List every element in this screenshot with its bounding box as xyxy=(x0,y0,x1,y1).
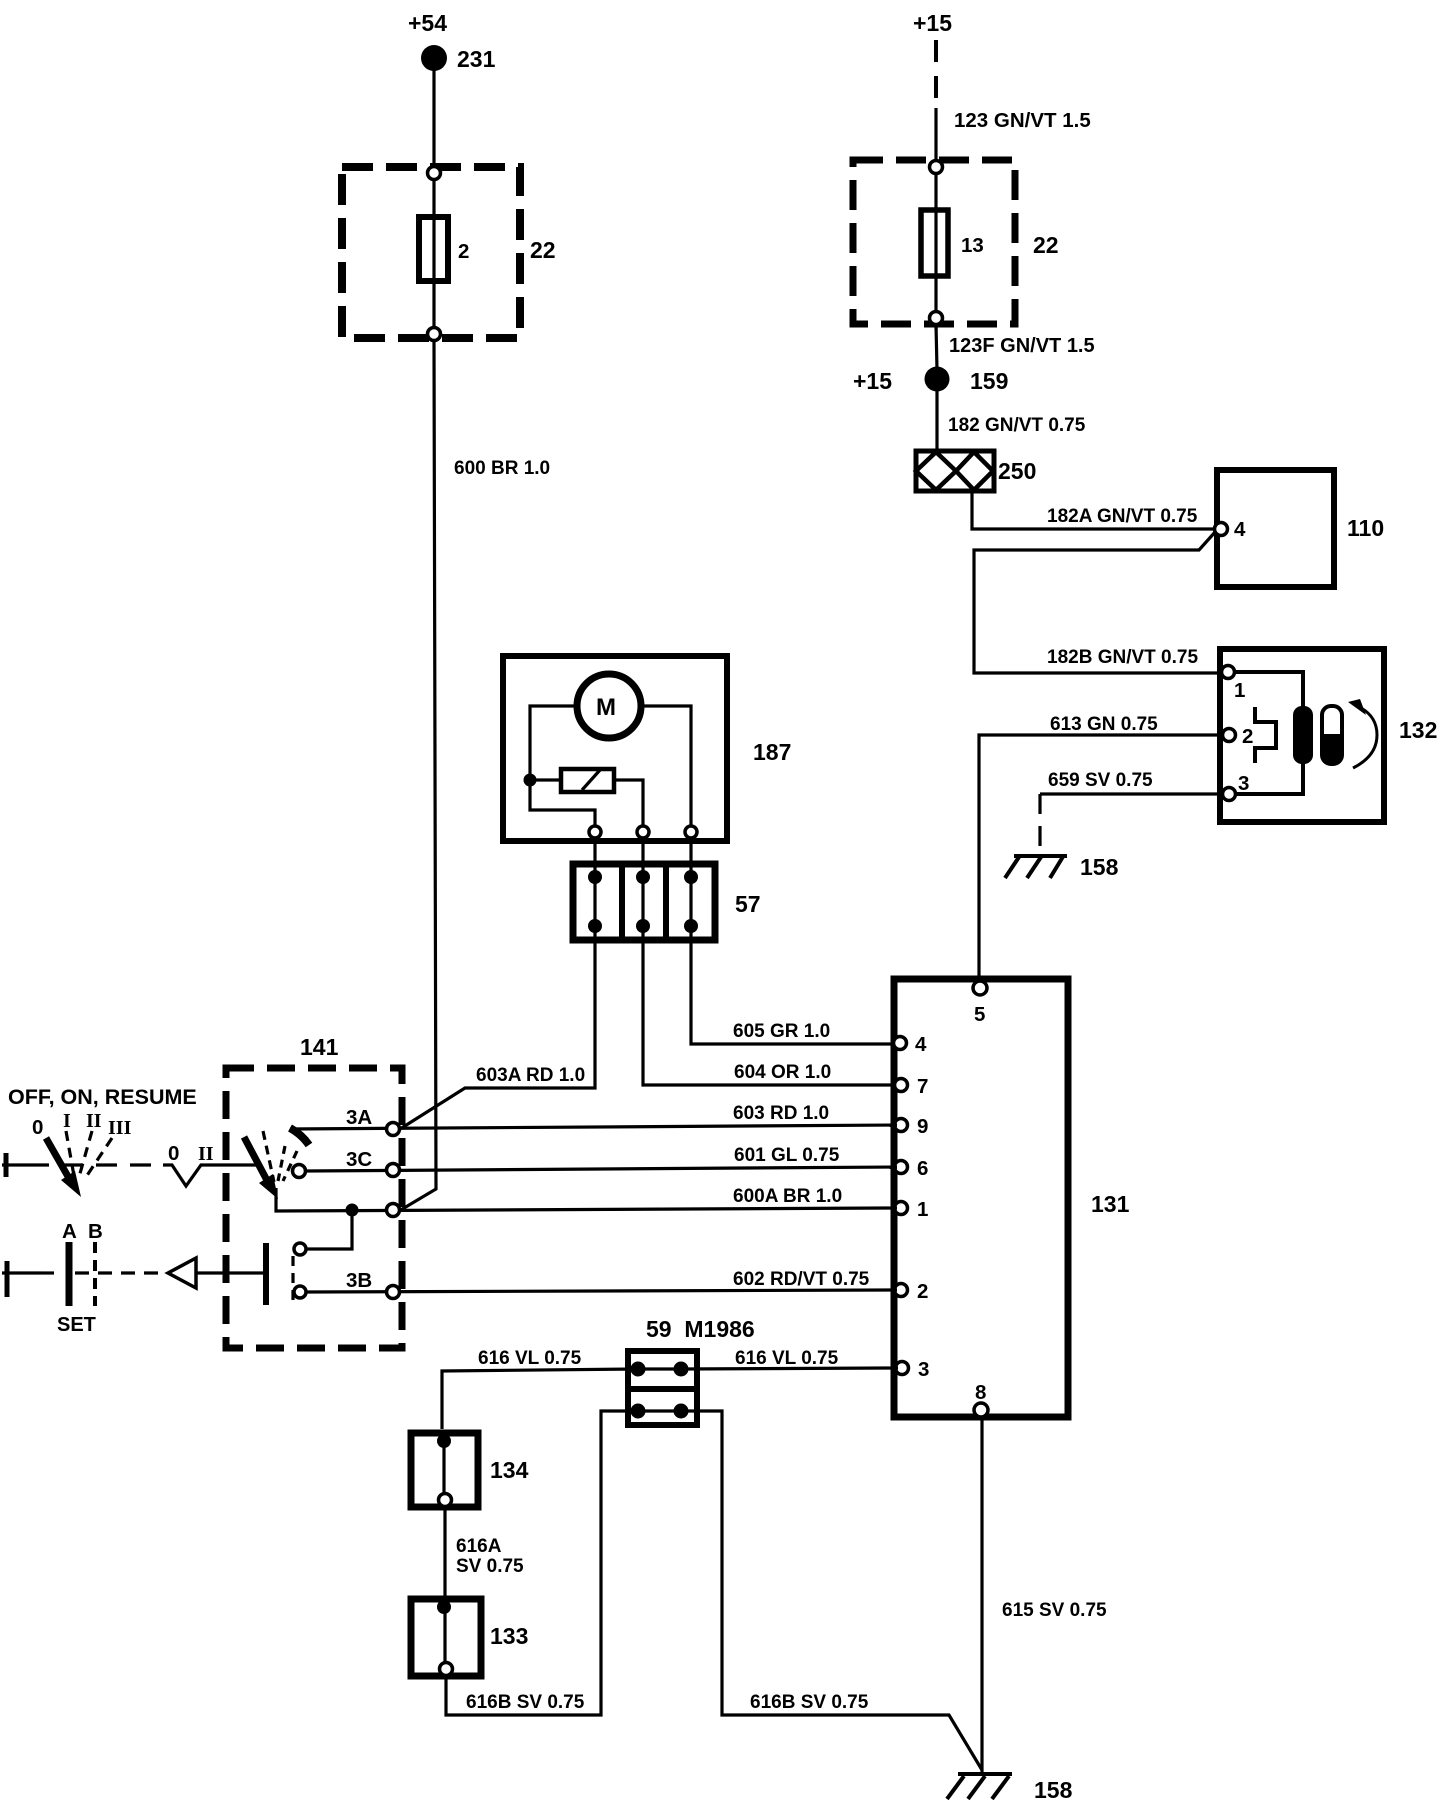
pin 3 of 132 xyxy=(1223,772,1250,801)
arrow (open triangle) on SET wire xyxy=(168,1258,196,1288)
fuse holder box 22 (left, dashed) xyxy=(342,167,556,338)
wire junction to SET contact xyxy=(306,1210,352,1249)
wire pin1 to motor capsule xyxy=(1234,672,1303,708)
rotation arrow xyxy=(1348,699,1377,768)
pin common on box edge xyxy=(387,1204,400,1217)
svg-text:9: 9 xyxy=(917,1115,928,1138)
switch unit 141 (dashed box) xyxy=(226,1034,402,1348)
svg-text:182 GN/VT 0.75: 182 GN/VT 0.75 xyxy=(948,415,1086,436)
wire 615 SV 0.75 xyxy=(982,1416,1107,1773)
contact dots of 57 xyxy=(588,870,698,933)
svg-text:600A BR 1.0: 600A BR 1.0 xyxy=(733,1186,842,1207)
svg-text:187: 187 xyxy=(753,739,791,765)
svg-text:5: 5 xyxy=(974,1003,985,1026)
svg-text:603 RD 1.0: 603 RD 1.0 xyxy=(733,1103,829,1124)
svg-text:+15: +15 xyxy=(913,10,952,36)
svg-text:59 M1986: 59 M1986 xyxy=(646,1316,755,1342)
box 187 servo xyxy=(503,656,791,841)
svg-text:4: 4 xyxy=(915,1033,927,1056)
terminal 3 of 187 xyxy=(685,826,697,838)
svg-text:B: B xyxy=(88,1220,103,1243)
svg-text:131: 131 xyxy=(1091,1191,1130,1217)
contact 3C inside xyxy=(293,1165,306,1178)
svg-text:616 VL 0.75: 616 VL 0.75 xyxy=(478,1348,582,1369)
wire 605 GR 1.0 xyxy=(691,926,897,1044)
wire 616B SV 0.75 (left) xyxy=(446,1411,638,1715)
svg-text:605 GR 1.0: 605 GR 1.0 xyxy=(733,1021,830,1042)
terminal top of fuse 2 xyxy=(428,167,441,180)
pin 7 of 131 xyxy=(895,1075,929,1098)
terminal top of fuse 13 xyxy=(930,161,943,174)
contact dots of 59 xyxy=(631,1362,689,1419)
wire 182B GN/VT 0.75 xyxy=(974,531,1224,673)
svg-text:3: 3 xyxy=(1238,772,1249,795)
connector 57 xyxy=(573,861,761,941)
svg-text:2: 2 xyxy=(917,1280,928,1303)
svg-text:SV 0.75: SV 0.75 xyxy=(456,1556,524,1577)
vacuum switch stepped contact xyxy=(1255,707,1276,763)
svg-text:4: 4 xyxy=(1234,518,1246,541)
svg-text:OFF, ON, RESUME: OFF, ON, RESUME xyxy=(8,1085,197,1109)
pin 4 of 131 xyxy=(894,1033,928,1056)
svg-text:158: 158 xyxy=(1034,1777,1073,1800)
svg-text:2: 2 xyxy=(1242,725,1253,748)
wire motor right to terminal 3 xyxy=(641,706,691,830)
node 159 xyxy=(925,367,1009,395)
wire 659 SV 0.75 xyxy=(1040,770,1222,853)
connector 59 xyxy=(628,1316,755,1425)
svg-text:123F GN/VT 1.5: 123F GN/VT 1.5 xyxy=(949,335,1095,357)
pin 8 of 131 xyxy=(974,1381,988,1417)
wire 602 RD/VT 0.75 (3B to pin 2) xyxy=(306,1269,897,1292)
svg-text:159: 159 xyxy=(970,368,1008,394)
connector 250 xyxy=(916,451,1036,491)
pin 3C on box edge xyxy=(387,1164,400,1177)
svg-text:3C: 3C xyxy=(346,1148,372,1171)
wire 182A GN/VT 0.75 xyxy=(972,491,1216,529)
box 132 xyxy=(1220,649,1437,822)
rotary switch lever (inside 141) xyxy=(244,1128,309,1199)
svg-text:+15: +15 xyxy=(853,368,892,394)
terminal bottom of fuse 13 xyxy=(930,312,943,325)
svg-text:3B: 3B xyxy=(346,1269,372,1292)
wire solenoid to terminal 2 xyxy=(614,780,643,830)
dashed wire to switch xyxy=(2,1163,163,1166)
fuse holder box 22 (right, dashed) xyxy=(853,160,1059,324)
SET fixed contact bar inside 141 xyxy=(196,1243,266,1305)
terminal bottom of fuse 2 xyxy=(428,328,441,341)
wire junction to solenoid xyxy=(530,778,561,781)
pin 6 of 131 xyxy=(895,1157,929,1180)
labels 0 II at notch xyxy=(168,1142,214,1165)
svg-text:1: 1 xyxy=(1234,679,1245,702)
node 231 xyxy=(421,45,496,72)
svg-text:123 GN/VT 1.5: 123 GN/VT 1.5 xyxy=(954,109,1091,132)
ground 158 (bottom) xyxy=(947,1774,1073,1800)
wire 123 GN/VT 1.5 xyxy=(936,108,1091,170)
svg-text:+54: +54 xyxy=(408,10,447,36)
wire from node 231 to fuse 2 xyxy=(432,58,435,170)
rotary switch position labels 0 I II III xyxy=(32,1110,132,1139)
svg-text:22: 22 xyxy=(1033,232,1059,258)
svg-text:I: I xyxy=(63,1110,71,1132)
wire 616B SV 0.75 (right) xyxy=(681,1411,982,1770)
pin 3 of 131 xyxy=(896,1358,930,1381)
rotary switch lever (outside) xyxy=(46,1131,112,1197)
SET dashed link xyxy=(291,1256,294,1303)
wire 123F GN/VT 1.5 xyxy=(936,324,1095,370)
wire 600A BR 1.0 (common to pin 1) xyxy=(276,1186,897,1211)
wire 182 GN/VT 0.75 xyxy=(937,391,1086,452)
box 110 xyxy=(1217,470,1384,587)
svg-text:6: 6 xyxy=(917,1157,928,1180)
svg-text:604 OR 1.0: 604 OR 1.0 xyxy=(734,1062,831,1083)
pin 2 of 132 xyxy=(1223,725,1254,748)
SET moving contact upper xyxy=(294,1243,306,1255)
solenoid valve symbol xyxy=(561,769,614,792)
fuse 2 xyxy=(419,217,469,281)
svg-text:2: 2 xyxy=(458,240,469,263)
terminal 1 of 187 xyxy=(589,826,601,838)
svg-text:22: 22 xyxy=(530,237,556,263)
terminal 2 of 187 xyxy=(637,826,649,838)
wire 603 RD 1.0 (3A to pin 9) xyxy=(290,1103,897,1129)
svg-text:158: 158 xyxy=(1080,854,1119,880)
motor M xyxy=(577,674,641,738)
svg-text:13: 13 xyxy=(961,234,984,257)
svg-text:616B SV 0.75: 616B SV 0.75 xyxy=(750,1692,869,1713)
wire motor left to terminal 1 xyxy=(530,706,595,830)
svg-text:3: 3 xyxy=(918,1358,929,1381)
wire +15 dashed xyxy=(934,40,938,108)
pin 9 of 131 xyxy=(895,1115,929,1138)
svg-text:0: 0 xyxy=(32,1116,43,1139)
wire through fuse 2 xyxy=(432,170,435,342)
svg-text:615 SV 0.75: 615 SV 0.75 xyxy=(1002,1600,1107,1621)
svg-text:613 GN 0.75: 613 GN 0.75 xyxy=(1050,714,1158,735)
pin 4 of 110 xyxy=(1215,518,1247,541)
ground 158 (upper) xyxy=(1005,854,1119,880)
wire 603A RD 1.0 xyxy=(400,926,595,1129)
clutch switch 134 xyxy=(411,1430,529,1510)
pin 3B on box edge xyxy=(387,1286,400,1299)
pin 2 of 131 xyxy=(895,1280,929,1303)
svg-text:182B GN/VT 0.75: 182B GN/VT 0.75 xyxy=(1047,647,1198,668)
wire 604 OR 1.0 xyxy=(643,926,897,1085)
svg-text:8: 8 xyxy=(975,1381,986,1404)
junction dot common xyxy=(346,1204,359,1217)
svg-text:616 VL 0.75: 616 VL 0.75 xyxy=(735,1348,839,1369)
svg-text:M: M xyxy=(596,694,616,721)
svg-text:3A: 3A xyxy=(346,1106,372,1129)
svg-text:II: II xyxy=(86,1110,102,1132)
wire 616A SV 0.75 xyxy=(445,1510,524,1596)
wire 616 VL 0.75 (right) xyxy=(681,1348,898,1369)
pin 3A on box edge xyxy=(387,1123,400,1136)
box 131 control unit xyxy=(894,979,1130,1417)
svg-text:603A RD 1.0: 603A RD 1.0 xyxy=(476,1065,585,1086)
pin 1 of 131 xyxy=(895,1198,929,1221)
svg-text:250: 250 xyxy=(998,458,1036,484)
V notch and wire into 141 xyxy=(163,1165,256,1186)
svg-text:659 SV 0.75: 659 SV 0.75 xyxy=(1048,770,1153,791)
brake switch 133 xyxy=(411,1596,528,1678)
svg-text:601 GL 0.75: 601 GL 0.75 xyxy=(734,1145,840,1166)
svg-text:A: A xyxy=(62,1220,77,1243)
svg-text:SET: SET xyxy=(57,1314,96,1336)
wire through fuse 13 xyxy=(934,170,937,330)
svg-text:600 BR 1.0: 600 BR 1.0 xyxy=(454,458,550,479)
wire 613 GN 0.75 xyxy=(979,714,1223,982)
servo motor capsule (filled) xyxy=(1293,706,1313,764)
svg-text:110: 110 xyxy=(1347,515,1384,541)
terminal bar left of rotary line xyxy=(4,1153,9,1177)
wire capsule to pin3 xyxy=(1235,762,1303,794)
svg-text:0: 0 xyxy=(168,1142,179,1165)
pin 5 of 131 xyxy=(973,981,987,1026)
SET switch outside: terminal bar xyxy=(5,1261,10,1297)
pin 1 of 132 xyxy=(1222,666,1246,703)
svg-text:602 RD/VT 0.75: 602 RD/VT 0.75 xyxy=(733,1269,870,1290)
wires 187 to connector 57 xyxy=(595,838,691,877)
junction dot in 187 xyxy=(524,774,537,787)
svg-text:134: 134 xyxy=(490,1457,529,1483)
svg-text:231: 231 xyxy=(457,46,496,72)
wire 601 GL 0.75 (3C to pin 6) xyxy=(305,1145,897,1171)
svg-text:132: 132 xyxy=(1399,717,1437,743)
valve capsule (half filled) xyxy=(1322,706,1342,764)
svg-text:616A: 616A xyxy=(456,1536,502,1557)
fuse 13 xyxy=(921,210,984,276)
svg-text:II: II xyxy=(198,1143,214,1165)
wire 616 VL 0.75 (left) xyxy=(442,1348,638,1429)
svg-text:57: 57 xyxy=(735,891,761,917)
svg-text:7: 7 xyxy=(917,1075,928,1098)
svg-text:141: 141 xyxy=(300,1034,339,1060)
svg-text:182A GN/VT 0.75: 182A GN/VT 0.75 xyxy=(1047,506,1198,527)
svg-text:616B SV 0.75: 616B SV 0.75 xyxy=(466,1692,585,1713)
svg-text:III: III xyxy=(108,1117,132,1139)
wire 600 BR 1.0 xyxy=(399,342,550,1211)
SET wire and contacts A B xyxy=(2,1220,165,1336)
SET moving contact lower xyxy=(294,1286,306,1298)
svg-text:1: 1 xyxy=(917,1198,928,1221)
svg-text:133: 133 xyxy=(490,1623,528,1649)
